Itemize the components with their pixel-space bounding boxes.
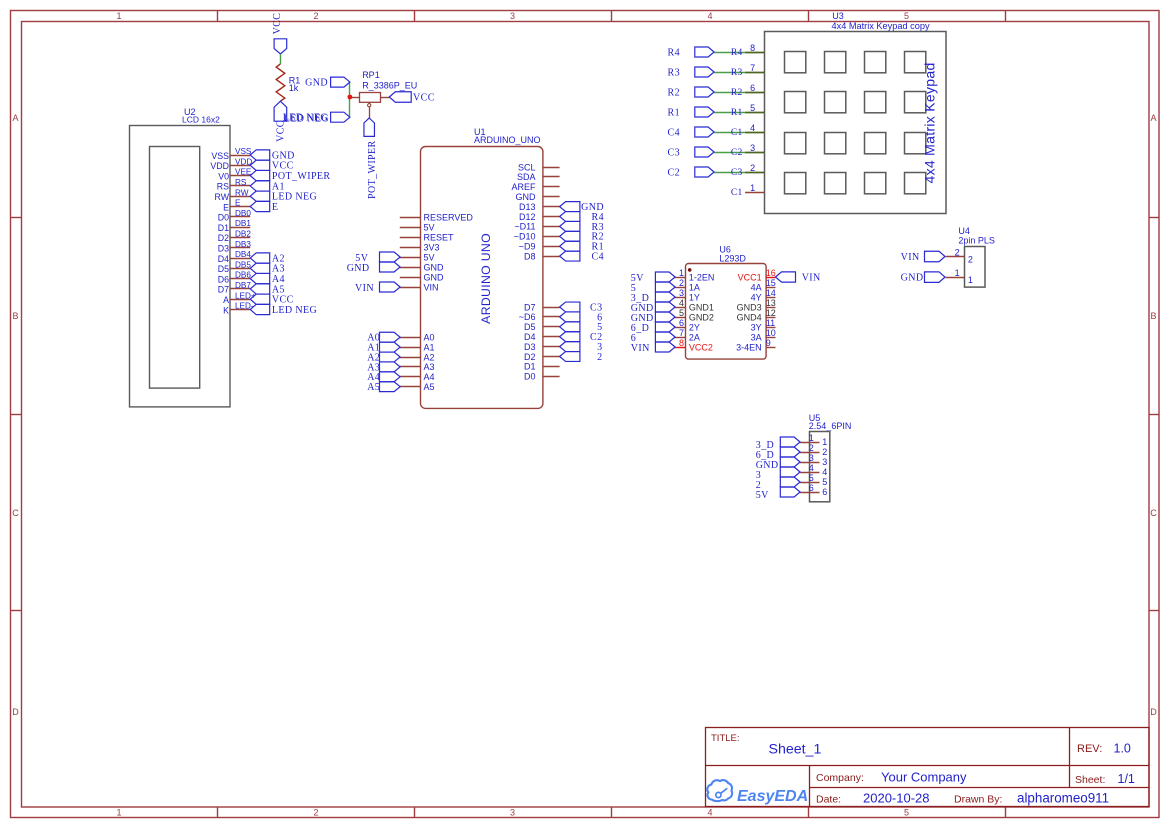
svg-text:DB3: DB3: [235, 240, 251, 249]
svg-text:A0: A0: [424, 333, 435, 343]
svg-text:5V: 5V: [756, 490, 769, 501]
svg-text:8: 8: [750, 43, 755, 53]
svg-text:K: K: [223, 305, 229, 315]
svg-text:D12: D12: [519, 212, 536, 222]
svg-text:A1: A1: [424, 342, 435, 352]
svg-text:RP1: RP1: [362, 70, 380, 80]
svg-text:U4: U4: [958, 226, 970, 236]
svg-text:C2: C2: [731, 148, 743, 158]
svg-text:R_3386P_EU: R_3386P_EU: [362, 80, 417, 90]
svg-text:D13: D13: [519, 202, 536, 212]
svg-text:VCC2: VCC2: [689, 343, 713, 353]
svg-text:R2: R2: [731, 88, 743, 98]
svg-text:~D11: ~D11: [514, 222, 535, 232]
svg-text:4x4 Matrix Keypad copy: 4x4 Matrix Keypad copy: [832, 21, 930, 31]
svg-text:GND1: GND1: [689, 303, 714, 313]
svg-text:Sheet:: Sheet:: [1075, 774, 1105, 786]
svg-text:13: 13: [766, 298, 776, 308]
svg-text:VSS: VSS: [211, 151, 229, 161]
svg-text:R1: R1: [668, 107, 680, 118]
svg-text:AREF: AREF: [511, 182, 536, 192]
svg-text:~D10: ~D10: [514, 232, 536, 242]
svg-text:alpharomeo911: alpharomeo911: [1017, 791, 1109, 806]
svg-text:A: A: [1150, 113, 1156, 123]
svg-text:C3: C3: [731, 168, 743, 178]
svg-text:C2: C2: [668, 167, 680, 178]
svg-text:LED NEG: LED NEG: [272, 192, 317, 203]
svg-text:~D9: ~D9: [519, 242, 536, 252]
svg-text:R4: R4: [731, 48, 743, 58]
svg-text:2: 2: [313, 11, 318, 21]
svg-text:A4: A4: [424, 372, 435, 382]
svg-text:E: E: [272, 202, 279, 213]
svg-text:E: E: [223, 202, 229, 212]
svg-text:D7: D7: [524, 302, 536, 312]
svg-text:1: 1: [679, 268, 684, 278]
svg-text:GND: GND: [424, 272, 445, 282]
svg-text:2: 2: [822, 447, 827, 457]
svg-text:4: 4: [707, 11, 712, 21]
svg-text:RS: RS: [235, 178, 247, 187]
svg-text:RW: RW: [235, 188, 249, 197]
svg-text:A2: A2: [424, 352, 435, 362]
svg-text:DB1: DB1: [235, 219, 251, 228]
svg-text:VIN: VIN: [424, 282, 439, 292]
svg-text:ARDUINO_UNO: ARDUINO_UNO: [474, 135, 541, 145]
svg-text:3: 3: [510, 808, 515, 818]
svg-text:2: 2: [955, 248, 960, 258]
svg-text:R3: R3: [668, 67, 680, 78]
svg-text:4Y: 4Y: [751, 293, 762, 303]
svg-text:GND: GND: [424, 262, 445, 272]
svg-text:GND4: GND4: [737, 313, 762, 323]
svg-text:D0: D0: [524, 372, 536, 382]
svg-text:D0: D0: [218, 213, 229, 223]
svg-text:D1: D1: [218, 223, 229, 233]
svg-text:2: 2: [750, 163, 755, 173]
svg-text:1: 1: [822, 437, 827, 447]
svg-text:V0: V0: [218, 171, 229, 181]
svg-text:LCD 16x2: LCD 16x2: [182, 115, 220, 125]
svg-text:6: 6: [750, 83, 755, 93]
svg-text:D: D: [12, 707, 19, 717]
svg-text:5: 5: [750, 103, 755, 113]
svg-text:1Y: 1Y: [689, 293, 700, 303]
svg-text:6: 6: [679, 318, 684, 328]
svg-text:2: 2: [968, 255, 973, 265]
svg-text:VCC1: VCC1: [738, 273, 762, 283]
svg-text:A5: A5: [424, 382, 435, 392]
svg-text:Drawn By:: Drawn By:: [954, 794, 1002, 806]
svg-text:16: 16: [766, 268, 776, 278]
svg-text:8: 8: [679, 338, 684, 348]
svg-text:D6: D6: [218, 274, 229, 284]
svg-text:2.54_6PIN: 2.54_6PIN: [809, 421, 852, 431]
svg-text:C: C: [1150, 508, 1157, 518]
svg-text:1.0: 1.0: [1114, 742, 1131, 756]
svg-text:1-2EN: 1-2EN: [689, 273, 715, 283]
svg-text:4x4 Matrix Keypad: 4x4 Matrix Keypad: [922, 62, 938, 183]
svg-text:5V: 5V: [424, 252, 435, 262]
svg-text:VEE: VEE: [235, 168, 252, 177]
svg-text:VIN: VIN: [631, 343, 650, 354]
svg-text:A: A: [12, 113, 18, 123]
svg-text:D8: D8: [524, 251, 536, 261]
svg-text:ARDUINO UNO: ARDUINO UNO: [479, 233, 493, 324]
svg-text:GND: GND: [901, 273, 924, 284]
svg-text:D3: D3: [524, 342, 536, 352]
svg-text:3: 3: [679, 288, 684, 298]
svg-text:2: 2: [679, 278, 684, 288]
svg-text:VCC: VCC: [413, 92, 435, 103]
svg-text:U3: U3: [832, 11, 844, 21]
svg-text:4: 4: [822, 467, 827, 477]
svg-text:2: 2: [597, 352, 602, 363]
svg-text:Your Company: Your Company: [881, 770, 967, 785]
svg-text:1A: 1A: [689, 283, 700, 293]
svg-text:12: 12: [766, 308, 776, 318]
svg-text:VCC: VCC: [272, 13, 283, 35]
svg-text:DB6: DB6: [235, 271, 251, 280]
svg-text:2: 2: [313, 808, 318, 818]
svg-text:3: 3: [809, 453, 814, 463]
svg-text:15: 15: [766, 278, 776, 288]
svg-text:TITLE:: TITLE:: [711, 733, 740, 744]
svg-text:C3: C3: [668, 147, 680, 158]
svg-text:VIN: VIN: [802, 272, 821, 283]
svg-text:2Y: 2Y: [689, 323, 700, 333]
svg-text:5: 5: [904, 11, 909, 21]
svg-text:D4: D4: [524, 332, 536, 342]
svg-text:R4: R4: [668, 47, 680, 58]
svg-text:D4: D4: [218, 254, 229, 264]
svg-text:C: C: [12, 508, 19, 518]
svg-text:2020-10-28: 2020-10-28: [863, 791, 930, 806]
svg-text:GND: GND: [305, 78, 328, 89]
svg-text:DB4: DB4: [235, 250, 251, 259]
svg-text:R3: R3: [731, 68, 743, 78]
svg-text:1: 1: [809, 433, 814, 443]
svg-text:VIN: VIN: [901, 252, 920, 263]
svg-text:RS: RS: [217, 182, 229, 192]
svg-text:5: 5: [822, 477, 827, 487]
svg-text:7: 7: [679, 328, 684, 338]
svg-text:D7: D7: [218, 285, 229, 295]
svg-text:LED+: LED+: [235, 291, 256, 300]
svg-text:D2: D2: [524, 352, 536, 362]
svg-text:GND: GND: [347, 263, 370, 274]
svg-text:6: 6: [809, 483, 814, 493]
svg-text:GND: GND: [516, 192, 537, 202]
svg-text:DB7: DB7: [235, 281, 251, 290]
svg-text:5: 5: [679, 308, 684, 318]
svg-text:RESERVED: RESERVED: [424, 212, 474, 222]
svg-text:B: B: [1150, 311, 1156, 321]
svg-text:2pin PLS: 2pin PLS: [958, 235, 995, 245]
svg-text:SCL: SCL: [518, 162, 536, 172]
svg-text:LED NEG: LED NEG: [272, 305, 317, 316]
svg-text:2: 2: [809, 443, 814, 453]
svg-text:L293D: L293D: [719, 254, 746, 264]
svg-text:4: 4: [750, 123, 755, 133]
svg-text:C4: C4: [668, 127, 680, 138]
svg-text:DB0: DB0: [235, 209, 251, 218]
svg-text:3: 3: [750, 143, 755, 153]
svg-text:LED NEG: LED NEG: [283, 113, 328, 124]
svg-text:1: 1: [116, 808, 121, 818]
svg-text:D2: D2: [218, 233, 229, 243]
svg-text:5: 5: [809, 473, 814, 483]
svg-text:R2: R2: [668, 87, 680, 98]
svg-text:GND3: GND3: [737, 303, 762, 313]
svg-text:VDD: VDD: [210, 161, 229, 171]
svg-text:1: 1: [968, 275, 973, 285]
svg-text:4A: 4A: [751, 283, 762, 293]
svg-text:14: 14: [766, 288, 776, 298]
svg-text:E: E: [235, 199, 241, 208]
svg-text:D5: D5: [524, 322, 536, 332]
svg-text:A: A: [223, 295, 229, 305]
svg-text:4: 4: [679, 298, 684, 308]
svg-text:6: 6: [822, 487, 827, 497]
svg-text:GND2: GND2: [689, 313, 714, 323]
svg-text:C1: C1: [731, 128, 743, 138]
svg-text:D1: D1: [524, 362, 536, 372]
svg-text:1/1: 1/1: [1118, 772, 1135, 786]
svg-text:DB5: DB5: [235, 260, 251, 269]
svg-text:REV:: REV:: [1077, 743, 1102, 755]
svg-text:A3: A3: [424, 362, 435, 372]
svg-text:1k: 1k: [289, 83, 299, 93]
svg-text:C1: C1: [731, 188, 743, 198]
svg-text:3: 3: [822, 457, 827, 467]
svg-text:R1: R1: [731, 108, 743, 118]
svg-text:~D6: ~D6: [519, 312, 536, 322]
svg-text:D5: D5: [218, 264, 229, 274]
svg-text:B: B: [12, 311, 18, 321]
svg-text:EasyEDA: EasyEDA: [737, 788, 808, 805]
svg-text:11: 11: [766, 318, 775, 328]
svg-text:C4: C4: [592, 252, 604, 263]
svg-text:D: D: [1150, 707, 1157, 717]
svg-text:Date:: Date:: [816, 794, 841, 806]
svg-text:3-4EN: 3-4EN: [736, 343, 762, 353]
svg-text:3Y: 3Y: [751, 323, 762, 333]
svg-text:2A: 2A: [689, 333, 700, 343]
svg-text:POT_WIPER: POT_WIPER: [367, 140, 378, 199]
svg-text:3: 3: [510, 11, 515, 21]
svg-text:4: 4: [707, 808, 712, 818]
svg-text:1: 1: [116, 11, 121, 21]
svg-text:RW: RW: [215, 192, 230, 202]
svg-text:4: 4: [809, 463, 814, 473]
svg-text:1: 1: [955, 268, 960, 278]
svg-text:1: 1: [750, 183, 755, 193]
svg-text:SDA: SDA: [517, 172, 536, 182]
svg-text:D3: D3: [218, 244, 229, 254]
svg-text:Company:: Company:: [816, 772, 864, 784]
svg-text:10: 10: [766, 328, 776, 338]
svg-text:RESET: RESET: [424, 232, 455, 242]
svg-text:3V3: 3V3: [424, 242, 440, 252]
svg-text:5V: 5V: [424, 222, 435, 232]
svg-text:5: 5: [904, 808, 909, 818]
svg-text:A5: A5: [367, 382, 380, 393]
svg-text:VIN: VIN: [355, 283, 374, 294]
svg-text:7: 7: [750, 63, 755, 73]
svg-text:DB2: DB2: [235, 230, 251, 239]
svg-text:Sheet_1: Sheet_1: [769, 742, 822, 758]
svg-text:VSS: VSS: [235, 147, 252, 156]
svg-text:3A: 3A: [751, 333, 762, 343]
svg-text:9: 9: [766, 338, 771, 348]
